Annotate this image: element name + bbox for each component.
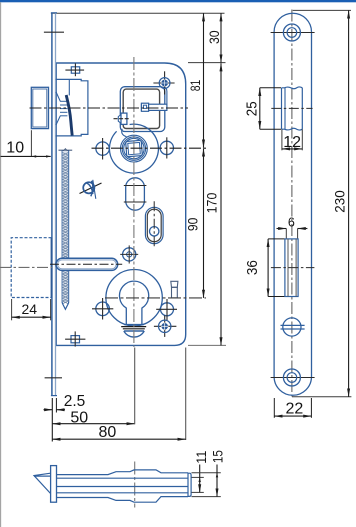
- dim 22: [274, 398, 311, 418]
- centerline vertical main: [133, 57, 135, 347]
- page top blue band: [0, 0, 356, 2]
- hub right mount hole: [160, 137, 173, 158]
- dim 15: [192, 450, 226, 497]
- svg-text:170: 170: [205, 193, 220, 214]
- hub ring middle: [122, 137, 145, 160]
- bv latch wedge: [34, 473, 51, 494]
- bv centerline: [134, 462, 136, 508]
- indicator pin filled: [154, 315, 177, 337]
- dim 10: [1, 130, 51, 157]
- latch bolt body in case: [56, 79, 88, 135]
- svg-text:81: 81: [188, 80, 203, 92]
- hub ring inner: [124, 138, 144, 158]
- wire: case bottom extension line: [188, 344, 226, 346]
- dim 12: [282, 129, 302, 151]
- hub square spindle outer: [126, 140, 143, 156]
- page left border: [0, 2, 2, 527]
- rivet circle with cross: [120, 245, 138, 263]
- dim 230: [292, 10, 351, 396]
- fp deadbolt cutout: [271, 239, 315, 297]
- latch bevel upper slant: [56, 92, 60, 101]
- faceplate top screw tick: [44, 31, 64, 33]
- dim 80: [52, 348, 185, 442]
- faceplate bottom screw tick: [45, 377, 62, 379]
- fp latch cutout: [271, 87, 312, 130]
- cylinder screw head circle: [124, 331, 145, 337]
- svg-text:80: 80: [99, 424, 117, 441]
- faceplate bottom cap: [51, 395, 57, 397]
- dim 11: [192, 451, 209, 493]
- cylinder right mount hole: [156, 299, 177, 320]
- svg-text:90: 90: [186, 218, 201, 232]
- screw hole square top-left: [65, 63, 84, 76]
- screw post top-right with cross: [153, 71, 174, 94]
- latch bolt head inner: [33, 89, 47, 127]
- bv faceplate block: [51, 466, 57, 503]
- fp outline: [274, 13, 311, 395]
- svg-text:22: 22: [286, 401, 304, 418]
- svg-text:230: 230: [331, 190, 347, 213]
- fp adjust screw slotted: [281, 318, 305, 336]
- svg-text:36: 36: [245, 260, 261, 275]
- centerline latch horizontal: [30, 107, 189, 109]
- deadbolt dashed outline: [11, 238, 51, 298]
- cylinder screw slot lines: [121, 325, 146, 331]
- dim 170: [205, 63, 222, 345]
- dim 2.5: [44, 393, 86, 442]
- screw hole square bottom-left: [65, 331, 85, 346]
- faceplate edge-on back line: [55, 13, 57, 396]
- dim 50: [52, 410, 134, 427]
- svg-text:10: 10: [6, 139, 24, 156]
- slot capsule right: [145, 201, 163, 249]
- faceplate top cap: [51, 12, 57, 14]
- deadbolt tail capsule: [50, 258, 122, 270]
- svg-text:50: 50: [70, 410, 88, 427]
- centerline deadbolt horizontal: [0, 266, 52, 268]
- hub outer circle: [109, 124, 158, 173]
- latch bevel lower slant: [56, 116, 60, 125]
- latch bolt head outer: [31, 87, 48, 128]
- guide rod spring coil zigzag: [62, 151, 68, 302]
- dim 30: [207, 13, 222, 62]
- fp bottom screw hole: [271, 369, 315, 386]
- euro cylinder circle: [119, 281, 148, 325]
- spring clip left: [114, 113, 131, 124]
- wire: case top extension line: [188, 62, 226, 64]
- hub square spindle inner: [128, 142, 141, 154]
- lock case outline: [56, 63, 186, 345]
- guide rod spring rails: [62, 151, 68, 304]
- stop pin part: [171, 281, 178, 298]
- hub follower tab: [122, 129, 127, 137]
- latch bolt curved bevel edge: [66, 95, 72, 136]
- lever capsule below hub: [124, 178, 147, 210]
- guide rod spring top tee: [59, 149, 73, 153]
- hub ring outer: [120, 135, 147, 162]
- svg-text:12: 12: [283, 134, 301, 151]
- coil spring: [80, 180, 102, 199]
- svg-text:6: 6: [288, 215, 295, 229]
- wire: faceplate top extension line to dims: [51, 12, 225, 14]
- centerline hub horizontal: [92, 147, 207, 149]
- hub left mount hole: [96, 138, 109, 160]
- cylinder left mount hole: [92, 298, 113, 320]
- svg-text:15: 15: [210, 450, 225, 463]
- latch guide vertical: [68, 79, 70, 95]
- centerline cylinder horizontal: [105, 297, 206, 299]
- svg-text:30: 30: [207, 30, 222, 44]
- svg-text:2.5: 2.5: [64, 393, 86, 410]
- latch spring hatch lines: [60, 101, 67, 116]
- dim 24: [12, 299, 51, 320]
- svg-text:24: 24: [22, 301, 38, 317]
- dim 81: [188, 13, 204, 148]
- spring cage dark rounded rect: [123, 89, 159, 128]
- faceplate edge-on front line: [51, 13, 53, 396]
- spring bar: [141, 103, 167, 111]
- dim 6: [277, 215, 308, 238]
- svg-text:25: 25: [245, 101, 261, 116]
- guide rod spring bottom point: [62, 303, 68, 309]
- bv case profile lines: [57, 470, 191, 502]
- cylinder rosette circle: [106, 270, 162, 326]
- spring wire blue rounded rect: [120, 87, 165, 132]
- deadbolt face line at plate: [51, 238, 53, 298]
- fp centerline vertical: [291, 10, 293, 397]
- svg-text:11: 11: [194, 451, 209, 464]
- dim 25: [245, 88, 281, 129]
- dim 36: [245, 239, 284, 297]
- fp top screw hole: [271, 24, 315, 41]
- dim 90: [186, 148, 204, 298]
